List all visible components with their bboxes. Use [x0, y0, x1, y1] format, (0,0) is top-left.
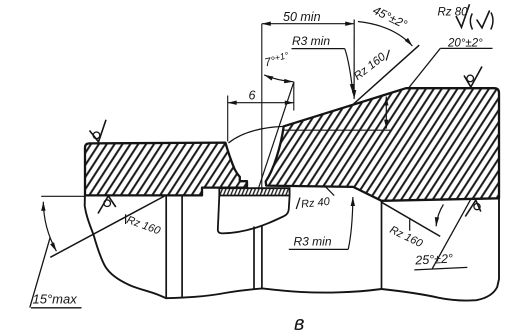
45 deg chamfer line	[354, 45, 420, 104]
surface symbol bottom-left plate	[98, 196, 116, 214]
label Rz 160 (left cone)	[125, 214, 127, 224]
svg-text:20°±2°: 20°±2°	[447, 38, 483, 50]
left cone edge line	[50, 196, 164, 257]
svg-text:Rz 160: Rz 160	[388, 224, 425, 250]
45 deg dimension arc	[358, 22, 413, 47]
lower body vertical edge 4	[261, 226, 263, 289]
dimension 6	[227, 96, 229, 142]
extension line right of 50 min with arrow to chamfer start	[353, 20, 355, 100]
surface symbol bottom-right block	[465, 200, 481, 216]
backing ring far contour	[218, 196, 290, 234]
surface symbol top-left plate	[90, 120, 107, 142]
label Rz 40 (recessed bottom of right block)	[296, 198, 300, 209]
svg-text:R3 min: R3 min	[294, 235, 332, 249]
svg-text:15°max: 15°max	[33, 292, 78, 307]
svg-text:в: в	[294, 313, 304, 335]
20 deg measuring double arrow	[385, 97, 387, 129]
left plate (shell wall, hatched section)	[85, 143, 247, 196]
lower body vertical edge 2	[181, 196, 183, 297]
svg-text:7°+1°: 7°+1°	[263, 50, 291, 69]
15 deg max dimension	[41, 195, 84, 197]
right block (body, hatched section) with 20 deg bevel	[266, 88, 499, 201]
svg-text:Rz 80: Rz 80	[438, 7, 469, 19]
right cone edge line	[381, 202, 440, 236]
surface symbol top-right block	[464, 67, 482, 88]
svg-text:R3 min: R3 min	[292, 34, 330, 48]
backing strip (fine hatched)	[219, 188, 289, 195]
lower body outline (left curve, bottom contour, right edge)	[85, 196, 499, 301]
svg-text:6: 6	[249, 89, 256, 103]
label Rz 160 (right cone)	[409, 220, 411, 231]
svg-text:Rz 160: Rz 160	[125, 214, 163, 237]
label Rz 160 (top chamfer)	[386, 50, 389, 61]
svg-text:50 min: 50 min	[283, 10, 321, 24]
dimension 50 min	[262, 23, 354, 25]
lower body vertical edge 5	[381, 201, 383, 290]
lower body vertical edge 1	[165, 196, 167, 298]
weld centerline	[261, 24, 263, 193]
svg-text:Rz 40: Rz 40	[301, 196, 332, 211]
svg-text:45°±2°: 45°±2°	[371, 3, 410, 32]
lower body vertical edge 3	[253, 227, 255, 290]
20 deg horizontal reference line	[284, 129, 391, 131]
7 deg dimension arc	[264, 75, 293, 82]
groove top opening arc	[228, 126, 283, 143]
7 deg groove wall nominal line	[258, 82, 293, 188]
